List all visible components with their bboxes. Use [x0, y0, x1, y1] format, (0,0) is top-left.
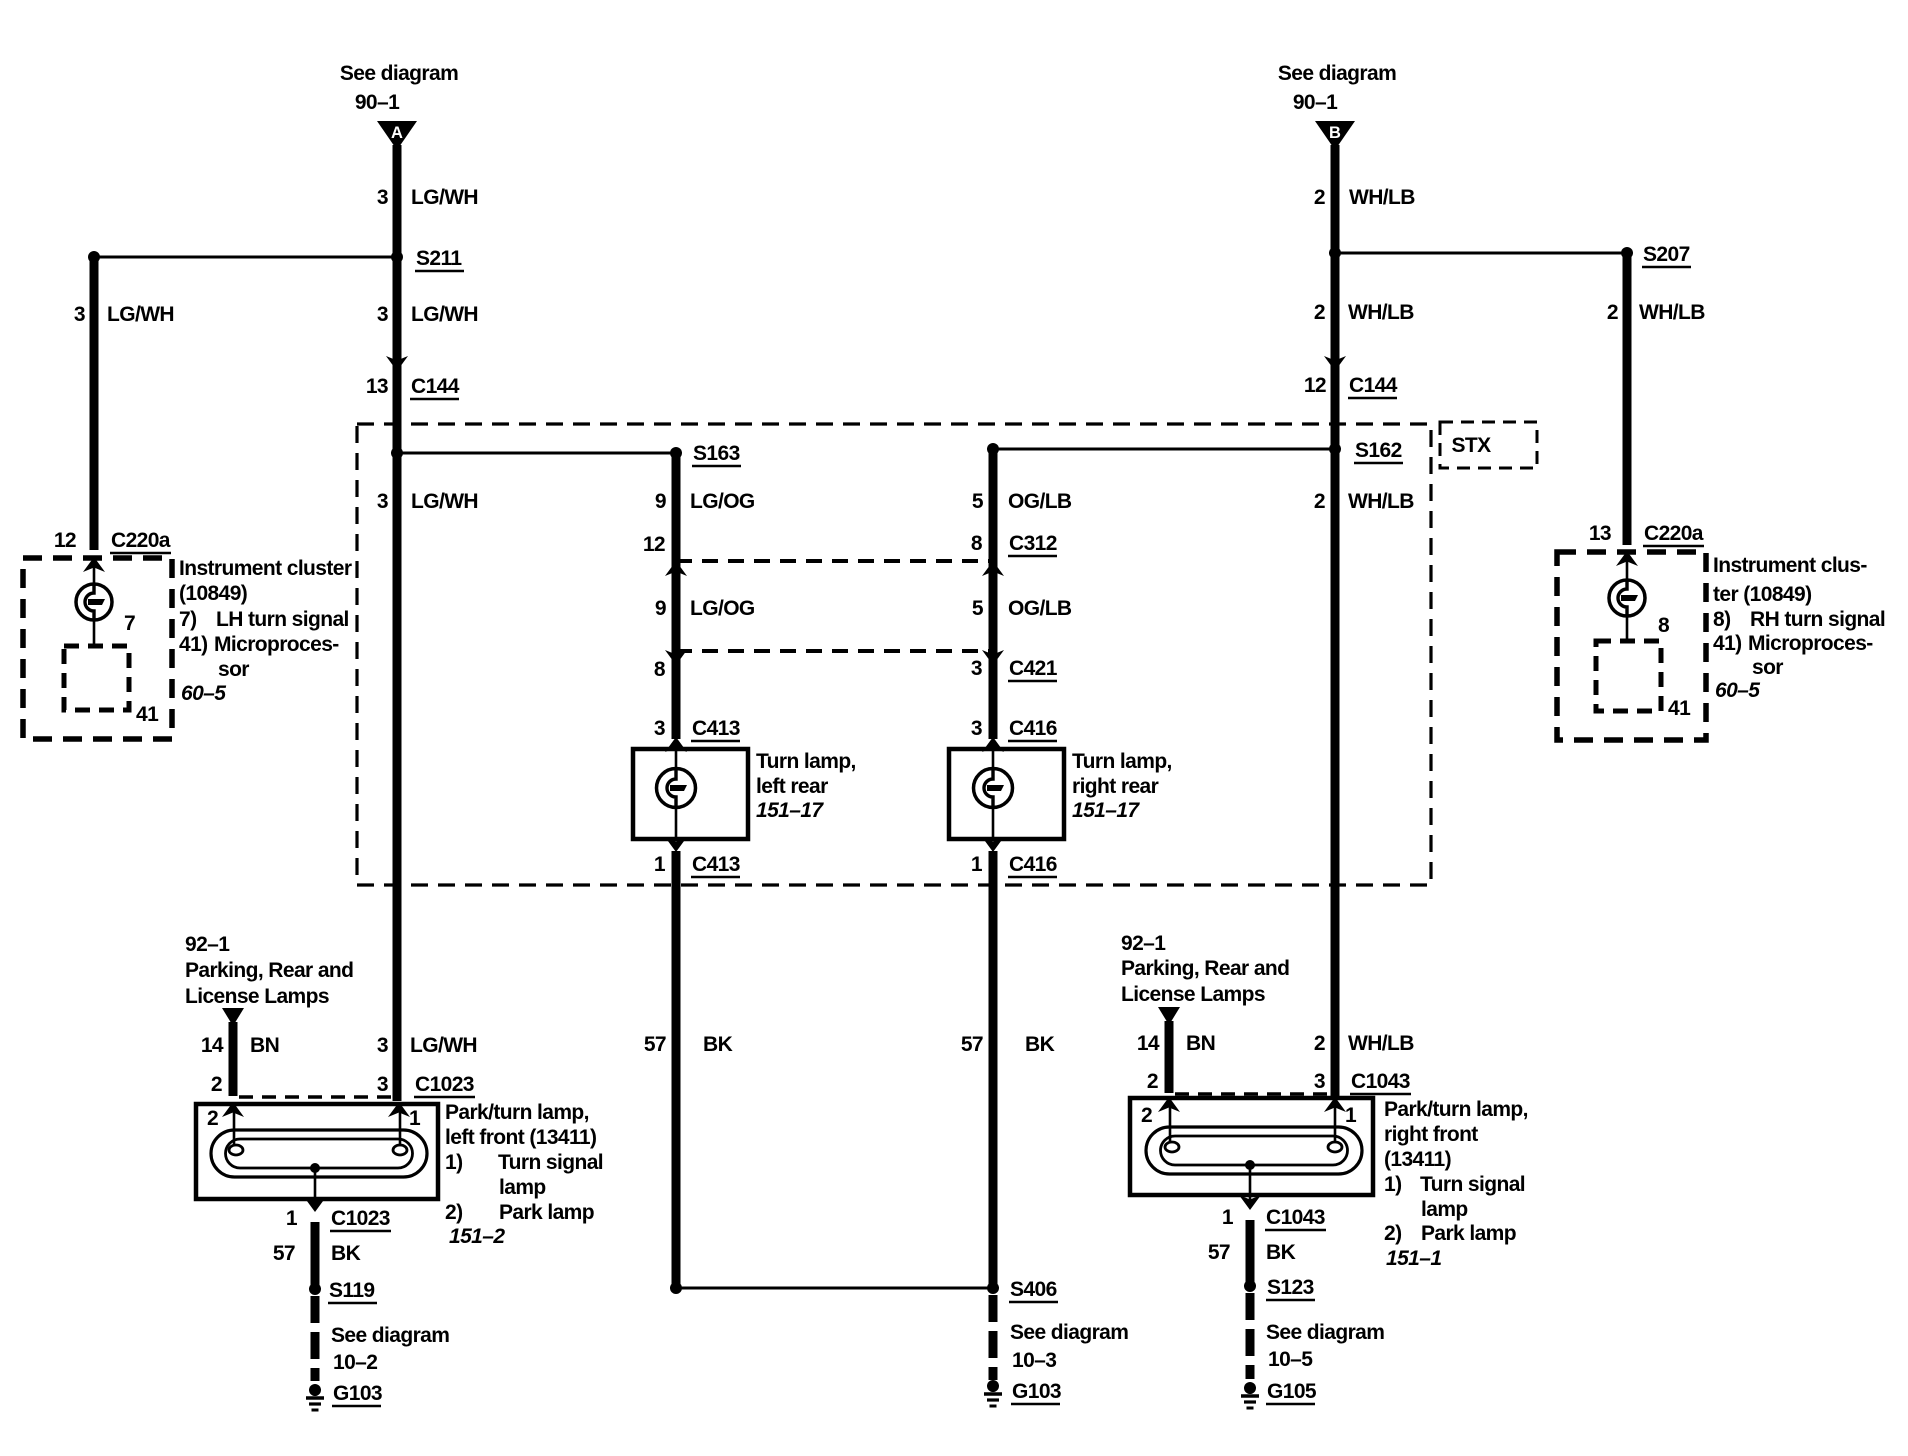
- park/turn lamp right bulb symbol: [1146, 1098, 1362, 1174]
- label: See diagram 10-5: [1266, 1321, 1384, 1371]
- connector C416 pin 3 arrow: [982, 737, 1004, 752]
- svg-text:Parking, Rear and: Parking, Rear and: [185, 959, 353, 982]
- svg-text:2): 2): [1384, 1222, 1401, 1245]
- svg-text:See diagram: See diagram: [1266, 1321, 1384, 1344]
- label: Turn lamp, left rear 151-17: [756, 750, 856, 822]
- svg-text:See diagram: See diagram: [1010, 1321, 1128, 1344]
- label S406: [1009, 1278, 1058, 1302]
- svg-text:13: 13: [1589, 522, 1611, 545]
- feed triangle BN (right): [1158, 1007, 1180, 1025]
- svg-text:57: 57: [1208, 1241, 1230, 1264]
- svg-text:9: 9: [655, 490, 666, 513]
- svg-text:ter (10849): ter (10849): [1713, 583, 1811, 606]
- connector C220a pin 12 arrow: [83, 557, 105, 572]
- label: Park/turn lamp, right front text: [1384, 1098, 1528, 1270]
- svg-text:RH turn signal: RH turn signal: [1750, 608, 1885, 631]
- svg-text:3: 3: [377, 186, 388, 209]
- wire label 2 WH/LB (B inside harness): [1314, 490, 1414, 513]
- svg-text:57: 57: [644, 1033, 666, 1056]
- node S207 junction dots: [1329, 247, 1633, 259]
- label 1 C413: [654, 853, 740, 877]
- wire: dashed ground lead (S406 to G103): [989, 1295, 998, 1380]
- svg-text:2: 2: [1314, 490, 1325, 513]
- label S163: [692, 442, 741, 466]
- svg-text:S211: S211: [416, 247, 462, 270]
- wire: left lamp ground lead: [314, 1168, 317, 1285]
- wire A vertical (LG/WH circuit 3): [393, 145, 402, 1101]
- wire label 57 BK (middle-left): [644, 1033, 733, 1056]
- svg-text:WH/LB: WH/LB: [1349, 186, 1415, 209]
- label 2 (C1023 pin): [211, 1073, 222, 1096]
- wire label 2 WH/LB (right branch): [1607, 301, 1705, 324]
- svg-text:WH/LB: WH/LB: [1639, 301, 1705, 324]
- svg-text:Park lamp: Park lamp: [499, 1201, 594, 1224]
- node S123 dot: [1244, 1280, 1256, 1292]
- svg-text:3: 3: [654, 717, 665, 740]
- wire: left branch vertical (LG/WH to cluster): [90, 257, 99, 550]
- wire label 3 LG/WH (A below S211): [377, 303, 478, 326]
- svg-text:C144: C144: [411, 375, 460, 398]
- svg-text:License Lamps: License Lamps: [185, 985, 329, 1008]
- svg-text:Turn lamp,: Turn lamp,: [756, 750, 856, 773]
- node S119 dot: [309, 1283, 321, 1295]
- label: See diagram 10-2: [331, 1324, 449, 1374]
- svg-text:13: 13: [366, 375, 388, 398]
- svg-text:2: 2: [207, 1107, 218, 1130]
- connector C416 pin 1 arrow: [982, 837, 1004, 852]
- park/turn lamp right front box: [1130, 1098, 1373, 1195]
- wire: right lamp ground lead: [1249, 1165, 1252, 1282]
- wire label 2 WH/LB (top of B): [1314, 186, 1415, 209]
- svg-text:Microproces-: Microproces-: [214, 633, 339, 656]
- svg-text:14: 14: [1137, 1032, 1160, 1055]
- svg-text:LG/OG: LG/OG: [690, 490, 755, 513]
- svg-text:10–5: 10–5: [1268, 1348, 1313, 1371]
- svg-text:G103: G103: [333, 1382, 382, 1405]
- connector C421 in-line (dashed): [676, 649, 993, 653]
- svg-text:(13411): (13411): [1384, 1148, 1451, 1171]
- svg-text:Turn signal: Turn signal: [498, 1151, 603, 1174]
- svg-text:sor: sor: [218, 658, 249, 681]
- label S162: [1354, 439, 1403, 463]
- svg-text:12: 12: [54, 529, 76, 552]
- turn lamp right rear bulb: [974, 749, 1013, 839]
- svg-text:LG/WH: LG/WH: [410, 1034, 477, 1057]
- svg-text:OG/LB: OG/LB: [1008, 597, 1072, 620]
- svg-text:2: 2: [1147, 1070, 1158, 1093]
- label pins 2 / 1 (right box): [1141, 1104, 1357, 1127]
- wire label 2 WH/LB (above C1043): [1314, 1032, 1414, 1055]
- svg-text:WH/LB: WH/LB: [1348, 490, 1414, 513]
- ground G103 (middle): [984, 1380, 1002, 1406]
- svg-text:1: 1: [1222, 1206, 1234, 1229]
- connector C421 arrows: [665, 650, 1004, 665]
- svg-text:C1023: C1023: [331, 1207, 390, 1230]
- svg-text:12: 12: [643, 533, 665, 556]
- svg-text:C220a: C220a: [1644, 522, 1704, 545]
- wire: middle-left vertical (LG/OG then BK): [672, 453, 681, 1288]
- svg-text:2: 2: [1314, 1032, 1325, 1055]
- svg-text:C416: C416: [1009, 717, 1057, 740]
- svg-text:LH turn signal: LH turn signal: [216, 608, 349, 631]
- svg-text:Instrument cluster: Instrument cluster: [179, 557, 352, 580]
- svg-text:1: 1: [1345, 1104, 1357, 1127]
- svg-text:9: 9: [655, 597, 666, 620]
- label S119: [328, 1279, 377, 1303]
- svg-text:92–1: 92–1: [185, 933, 230, 956]
- svg-text:S162: S162: [1355, 439, 1402, 462]
- wire: right branch vertical (WH/LB to cluster): [1623, 253, 1632, 545]
- svg-text:C144: C144: [1349, 374, 1398, 397]
- svg-text:3: 3: [377, 1073, 388, 1096]
- svg-text:3: 3: [971, 717, 982, 740]
- svg-text:C1023: C1023: [415, 1073, 474, 1096]
- label G105 (right): [1266, 1380, 1317, 1404]
- park/turn lamp left bulb symbol: [211, 1104, 427, 1177]
- svg-text:A: A: [391, 124, 403, 142]
- label 13 C220a: [1589, 522, 1704, 546]
- svg-text:lamp: lamp: [499, 1176, 546, 1199]
- wire: middle-right vertical (OG/LB then BK): [989, 449, 998, 1290]
- svg-text:Turn lamp,: Turn lamp,: [1072, 750, 1172, 773]
- connector triangle A (from diagram 90-1): [377, 121, 417, 150]
- svg-text:BN: BN: [250, 1034, 279, 1057]
- RH turn signal indicator bulb (pin 8): [1609, 552, 1645, 641]
- svg-text:STX: STX: [1451, 434, 1491, 457]
- label S211: [415, 247, 464, 271]
- svg-text:1: 1: [286, 1207, 298, 1230]
- connector C220a pin 13 arrow: [1616, 551, 1638, 566]
- svg-text:C413: C413: [692, 717, 740, 740]
- connector C144 pin 12 arrow: [1324, 356, 1346, 371]
- label: Instrument cluster LH text: [179, 557, 352, 705]
- svg-text:2: 2: [1314, 301, 1325, 324]
- svg-text:C312: C312: [1009, 532, 1057, 555]
- wire: BN feed left: [229, 1022, 238, 1096]
- park/turn lamp left front box: [196, 1104, 438, 1199]
- wire B vertical (WH/LB circuit 2): [1331, 145, 1340, 1098]
- svg-text:151–17: 151–17: [1072, 799, 1140, 822]
- svg-text:S207: S207: [1643, 243, 1690, 266]
- svg-text:Park lamp: Park lamp: [1421, 1222, 1516, 1245]
- connector C1043 arrows: [1158, 1097, 1346, 1112]
- svg-text:1): 1): [445, 1151, 462, 1174]
- svg-text:Microproces-: Microproces-: [1748, 632, 1873, 655]
- svg-text:41): 41): [179, 633, 208, 656]
- label 13 C144: [366, 375, 460, 399]
- svg-text:G103: G103: [1012, 1380, 1061, 1403]
- svg-text:2: 2: [1607, 301, 1618, 324]
- wire: S406 branch: [676, 1287, 993, 1290]
- svg-text:90–1: 90–1: [355, 91, 400, 114]
- svg-text:WH/LB: WH/LB: [1348, 301, 1414, 324]
- svg-text:Instrument clus-: Instrument clus-: [1713, 554, 1867, 577]
- svg-text:2: 2: [211, 1073, 222, 1096]
- svg-text:8: 8: [654, 658, 666, 681]
- label 12 C144: [1304, 374, 1398, 398]
- svg-text:8: 8: [971, 532, 983, 555]
- wire label 3 LG/WH (left branch): [74, 303, 174, 326]
- wire: dashed ground lead (S123 to G105): [1246, 1293, 1255, 1379]
- label pins 2 / 1 (left box): [207, 1107, 421, 1130]
- svg-text:LG/WH: LG/WH: [411, 303, 478, 326]
- svg-text:S119: S119: [329, 1279, 375, 1302]
- turn lamp right rear box: [949, 749, 1064, 839]
- LH turn signal indicator bulb (pin 7): [76, 558, 112, 646]
- svg-text:3: 3: [971, 657, 982, 680]
- node S163 junction dots: [391, 447, 682, 459]
- svg-text:WH/LB: WH/LB: [1348, 1032, 1414, 1055]
- svg-text:3: 3: [377, 1034, 388, 1057]
- wire label 9 LG/OG (upper): [655, 490, 755, 513]
- connector C1023 arrows: [222, 1102, 410, 1117]
- svg-text:right rear: right rear: [1072, 775, 1159, 798]
- svg-text:right front: right front: [1384, 1123, 1478, 1146]
- svg-text:B: B: [1329, 124, 1341, 142]
- svg-text:G105: G105: [1267, 1380, 1317, 1403]
- wire: S163 branch: [397, 452, 676, 455]
- connector C413 pin 3 arrow: [665, 737, 687, 752]
- svg-text:C413: C413: [692, 853, 740, 876]
- turn lamp left rear bulb: [657, 749, 696, 839]
- label 3 C421: [971, 657, 1058, 681]
- feed triangle BN (left): [222, 1008, 244, 1026]
- svg-text:LG/WH: LG/WH: [107, 303, 174, 326]
- svg-text:License Lamps: License Lamps: [1121, 983, 1265, 1006]
- svg-text:2: 2: [1141, 1104, 1152, 1127]
- svg-text:41): 41): [1713, 632, 1742, 655]
- svg-text:3: 3: [377, 490, 388, 513]
- label 12 (C312 pin, left): [643, 533, 665, 556]
- wire label 3 LG/WH (top of A): [377, 186, 478, 209]
- svg-text:BK: BK: [331, 1242, 361, 1265]
- connector C1043 pin 1 arrow: [1239, 1195, 1261, 1210]
- node S162 junction dots: [987, 443, 1341, 455]
- connector C413 pin 1 arrow: [665, 837, 687, 852]
- wire label 57 BK (middle-right): [961, 1033, 1055, 1056]
- svg-text:BN: BN: [1186, 1032, 1215, 1055]
- label S207: [1642, 243, 1691, 267]
- wire label 9 LG/OG (lower): [655, 597, 755, 620]
- svg-text:sor: sor: [1752, 656, 1783, 679]
- connector C1023 in-line (dashed): [239, 1095, 391, 1099]
- svg-text:90–1: 90–1: [1293, 91, 1338, 114]
- svg-text:8): 8): [1713, 608, 1730, 631]
- label: See diagram 90-1 (feed B): [1278, 62, 1396, 114]
- svg-text:C1043: C1043: [1351, 1070, 1410, 1093]
- STX harness label box: [1440, 422, 1537, 468]
- microprocessor box RH (pin 41): [1596, 641, 1661, 711]
- label 12 C220a: [54, 529, 171, 553]
- label 1 C1043 (bottom): [1222, 1206, 1326, 1230]
- svg-text:3: 3: [377, 303, 388, 326]
- svg-text:LG/WH: LG/WH: [411, 490, 478, 513]
- svg-text:92–1: 92–1: [1121, 932, 1166, 955]
- ground G105 (right): [1241, 1382, 1259, 1408]
- label: Turn lamp, right rear 151-17: [1072, 750, 1172, 822]
- svg-text:LG/OG: LG/OG: [690, 597, 755, 620]
- svg-text:Park/turn lamp,: Park/turn lamp,: [1384, 1098, 1528, 1121]
- wire label 57 BK (left): [273, 1242, 361, 1265]
- svg-text:Parking, Rear and: Parking, Rear and: [1121, 957, 1289, 980]
- label 1 C1023 (bottom): [286, 1207, 391, 1231]
- harness boundary (dashed box): [357, 424, 1431, 885]
- wire: S207 branch to RH cluster: [1335, 252, 1627, 255]
- wire label 14 BN (left): [201, 1034, 279, 1057]
- svg-text:151–2: 151–2: [449, 1225, 505, 1248]
- wire label 5 OG/LB (lower): [972, 597, 1072, 620]
- svg-text:2: 2: [1314, 186, 1325, 209]
- label: Park/turn lamp, left front text: [445, 1101, 603, 1248]
- label 8 (C421 pin, left): [654, 658, 666, 681]
- label G103 (middle): [1011, 1380, 1061, 1404]
- svg-text:See diagram: See diagram: [1278, 62, 1396, 85]
- svg-text:12: 12: [1304, 374, 1326, 397]
- svg-text:left rear: left rear: [756, 775, 828, 798]
- svg-text:S406: S406: [1010, 1278, 1057, 1301]
- instrument cluster RH dashed box: [1557, 552, 1706, 740]
- label 7 (LH indicator): [124, 612, 135, 635]
- svg-text:OG/LB: OG/LB: [1008, 490, 1072, 513]
- connector C312 arrows: [665, 561, 1004, 576]
- label 3 C1043: [1314, 1070, 1411, 1094]
- svg-text:C1043: C1043: [1266, 1206, 1325, 1229]
- wire label 57 BK (right): [1208, 1241, 1296, 1264]
- svg-text:lamp: lamp: [1421, 1198, 1468, 1221]
- svg-text:7: 7: [124, 612, 135, 635]
- svg-text:151–1: 151–1: [1386, 1247, 1441, 1270]
- node S406 junction dots: [670, 1282, 999, 1294]
- label 3 C413: [654, 717, 740, 741]
- label 8 C312: [971, 532, 1057, 556]
- svg-text:See diagram: See diagram: [340, 62, 458, 85]
- label G103 (left): [332, 1382, 382, 1406]
- label 41 (LH microprocessor): [136, 703, 159, 726]
- svg-text:BK: BK: [703, 1033, 733, 1056]
- label 1 C416: [971, 853, 1057, 877]
- svg-text:(10849): (10849): [179, 582, 247, 605]
- connector C144 pin 13 arrow: [386, 356, 408, 371]
- svg-text:2): 2): [445, 1201, 462, 1224]
- svg-text:41: 41: [1668, 697, 1691, 720]
- svg-text:Turn signal: Turn signal: [1420, 1173, 1525, 1196]
- ground G103 (left): [306, 1384, 324, 1410]
- wire label 2 WH/LB (B below S207): [1314, 301, 1414, 324]
- microprocessor box LH (pin 41): [64, 646, 129, 710]
- connector C312 in-line (dashed): [676, 559, 993, 563]
- turn lamp left rear box: [633, 749, 748, 839]
- svg-text:See diagram: See diagram: [331, 1324, 449, 1347]
- svg-text:BK: BK: [1266, 1241, 1296, 1264]
- node S211 junction dots: [88, 251, 403, 263]
- svg-text:3: 3: [1314, 1070, 1325, 1093]
- svg-text:8: 8: [1658, 614, 1670, 637]
- label: Instrument cluster RH text: [1713, 554, 1885, 702]
- svg-text:5: 5: [972, 597, 984, 620]
- svg-text:C416: C416: [1009, 853, 1057, 876]
- wire: S162 branch: [993, 448, 1335, 451]
- svg-text:57: 57: [961, 1033, 983, 1056]
- svg-text:S123: S123: [1267, 1276, 1314, 1299]
- svg-text:C220a: C220a: [111, 529, 171, 552]
- label: 92-1 Parking, Rear and License Lamps (left): [185, 933, 353, 1008]
- wire: dashed ground lead (S119 to G103): [311, 1296, 320, 1381]
- connector triangle B (from diagram 90-1): [1315, 121, 1355, 150]
- svg-text:3: 3: [74, 303, 85, 326]
- svg-text:S163: S163: [693, 442, 740, 465]
- svg-text:C421: C421: [1009, 657, 1058, 680]
- wire label 3 LG/WH (above C1023): [377, 1034, 477, 1057]
- label 8 (RH indicator): [1658, 614, 1670, 637]
- svg-text:LG/WH: LG/WH: [411, 186, 478, 209]
- svg-text:10–2: 10–2: [333, 1351, 377, 1374]
- label 2 (C1043 pin): [1147, 1070, 1158, 1093]
- label S123: [1266, 1276, 1315, 1300]
- label 41 (RH microprocessor): [1668, 697, 1691, 720]
- instrument cluster LH dashed box: [23, 558, 172, 739]
- label: See diagram 90-1 (feed A): [340, 62, 458, 114]
- svg-text:60–5: 60–5: [181, 682, 226, 705]
- label: See diagram 10-3: [1010, 1321, 1128, 1372]
- label 3 C1023: [377, 1073, 475, 1097]
- wire: S211 branch to LH cluster: [94, 256, 397, 259]
- wire: BN feed right: [1165, 1021, 1174, 1093]
- svg-text:7): 7): [179, 608, 196, 631]
- svg-text:151–17: 151–17: [756, 799, 824, 822]
- label 3 C416: [971, 717, 1057, 741]
- connector C1023 pin 1 arrow: [304, 1197, 326, 1212]
- svg-text:41: 41: [136, 703, 159, 726]
- wire label 5 OG/LB (upper): [972, 490, 1072, 513]
- svg-text:1: 1: [971, 853, 983, 876]
- svg-text:10–3: 10–3: [1012, 1349, 1056, 1372]
- wire label 3 LG/WH (A inside harness): [377, 490, 478, 513]
- connector C1043 in-line (dashed): [1175, 1092, 1329, 1096]
- svg-text:14: 14: [201, 1034, 224, 1057]
- label: 92-1 Parking, Rear and License Lamps (right): [1121, 932, 1289, 1006]
- wire label 14 BN (right): [1137, 1032, 1215, 1055]
- svg-text:1: 1: [409, 1107, 421, 1130]
- svg-text:BK: BK: [1025, 1033, 1055, 1056]
- svg-text:5: 5: [972, 490, 984, 513]
- svg-text:left front (13411): left front (13411): [445, 1126, 596, 1149]
- svg-text:60–5: 60–5: [1715, 679, 1760, 702]
- svg-text:57: 57: [273, 1242, 295, 1265]
- svg-text:1: 1: [654, 853, 666, 876]
- svg-text:Park/turn lamp,: Park/turn lamp,: [445, 1101, 589, 1124]
- svg-text:1): 1): [1384, 1173, 1401, 1196]
